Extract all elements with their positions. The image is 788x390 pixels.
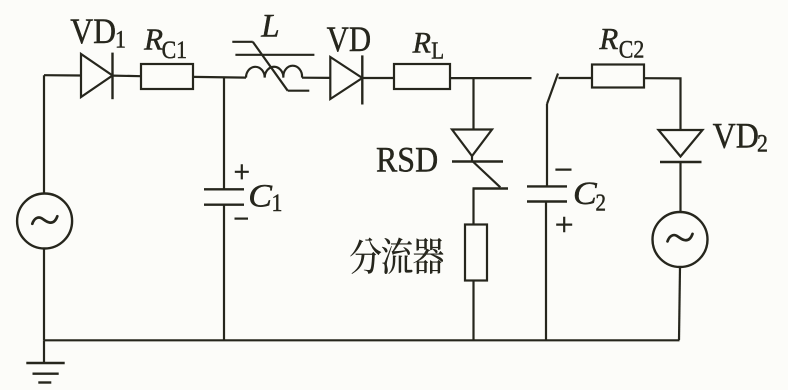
label C1 minus <box>235 218 249 220</box>
svg-text:RSD: RSD <box>376 141 438 180</box>
capacitor C2 bottom plate <box>527 200 567 202</box>
svg-text:C1: C1 <box>162 37 188 65</box>
AC source left circle <box>17 194 72 249</box>
ground bar 1 <box>26 362 64 364</box>
node junction RSD branch <box>472 78 474 130</box>
wire top-left horizontal <box>44 74 81 77</box>
wire RL to switch gap <box>450 77 532 79</box>
resistor RC2 <box>592 65 644 88</box>
wire VD to RL <box>362 77 394 79</box>
svg-text:C2: C2 <box>619 36 645 64</box>
resistor RC1 <box>141 64 193 89</box>
inductor L top tick <box>232 41 253 43</box>
capacitor C1 top plate <box>204 188 244 190</box>
svg-text:L: L <box>431 37 444 64</box>
diode VD <box>330 55 362 104</box>
svg-text:L: L <box>260 9 279 45</box>
RSD lower element bar <box>473 187 509 189</box>
wire C2 to bottom <box>545 202 547 341</box>
AC source right circle <box>653 212 708 267</box>
wire RC1 to coil <box>193 76 246 79</box>
svg-text:1: 1 <box>115 26 126 54</box>
capacitor C1 bottom plate <box>204 203 244 205</box>
label RSD <box>376 141 438 180</box>
capacitor C2 top plate <box>527 185 567 187</box>
label L <box>260 9 279 45</box>
inductor L core bar <box>235 54 314 56</box>
label VD <box>327 20 371 60</box>
label C2 <box>573 175 606 216</box>
label RC1 <box>143 22 187 64</box>
svg-text:VD: VD <box>70 12 116 51</box>
wire shunt to bottom <box>472 281 474 341</box>
inductor L bottom tick <box>288 90 310 92</box>
svg-text:VD: VD <box>713 117 759 156</box>
svg-text:C: C <box>248 178 273 215</box>
RSD upper diode <box>452 130 503 162</box>
diode VD2 <box>659 130 703 162</box>
diode VD1 <box>81 53 113 100</box>
ground stub <box>43 340 45 363</box>
wire right source to bottom corner <box>679 267 680 340</box>
RSD lower element diagonal <box>473 162 501 188</box>
label C2 plus <box>556 217 572 233</box>
svg-text:R: R <box>598 21 618 56</box>
wire VD2 to source <box>679 162 681 212</box>
wire switch to RC2 <box>559 77 593 79</box>
resistor RL <box>394 64 450 89</box>
svg-text:R: R <box>412 26 431 59</box>
svg-text:VD: VD <box>327 20 371 60</box>
svg-text:2: 2 <box>757 130 768 158</box>
wire VD1 to RC1 <box>113 74 142 77</box>
inductor L diagonal <box>253 42 288 91</box>
inductor L coil <box>246 66 302 78</box>
svg-text:2: 2 <box>596 189 606 216</box>
label C1 plus <box>235 164 249 179</box>
label RC2 <box>598 21 644 64</box>
wire source to bottom <box>43 249 45 341</box>
svg-text:1: 1 <box>272 190 283 218</box>
wire switch down to C2 <box>546 104 548 186</box>
wire left vertical upper <box>43 75 45 194</box>
node junction C1 branch <box>223 77 225 189</box>
wire RC2 to right corner <box>644 78 681 130</box>
label C1 <box>248 178 282 218</box>
ground bar 2 <box>33 373 59 375</box>
shunt resistor box <box>465 225 487 281</box>
AC source right tilde <box>668 234 693 242</box>
wire coil to VD <box>302 77 330 79</box>
label RL <box>412 26 445 63</box>
label shunt 分流器 <box>350 237 443 274</box>
wire RSD to shunt <box>472 189 474 225</box>
label VD1 <box>70 12 126 53</box>
label C2 minus <box>555 169 571 171</box>
switch blade <box>547 74 558 105</box>
AC source left tilde <box>32 216 57 224</box>
ground bar 3 <box>38 381 51 383</box>
svg-text:R: R <box>143 22 163 57</box>
label VD2 <box>713 117 768 158</box>
wire C1 to bottom <box>223 205 225 340</box>
wire bottom horizontal <box>44 339 680 341</box>
svg-text:C: C <box>573 175 598 212</box>
